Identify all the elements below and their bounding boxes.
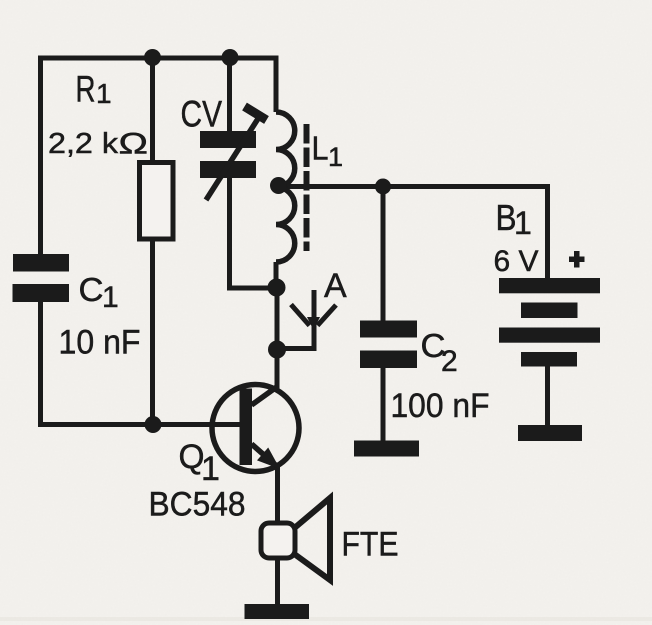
battery B1 plates <box>499 278 600 293</box>
FTE horn <box>295 498 330 580</box>
wire left column lower + bottom horizontal to base <box>41 301 241 425</box>
wire coil bottom stub <box>274 262 279 288</box>
svg-text:6 V: 6 V <box>494 245 539 278</box>
wire emitter lead <box>275 465 280 524</box>
inductor L1 coil <box>276 112 295 262</box>
wire C2 top lead <box>381 187 386 322</box>
wire antenna stem and link <box>277 290 314 349</box>
svg-text:1: 1 <box>96 78 112 109</box>
svg-text:1: 1 <box>201 450 220 488</box>
antenna A symbol <box>291 305 336 326</box>
node: coil tap <box>270 177 287 194</box>
node: antenna junction <box>268 341 286 359</box>
Q1 emitter arrowhead <box>257 448 280 470</box>
node: top rail / CV junction <box>222 49 239 66</box>
B1 plus sign <box>569 257 585 263</box>
wire FTE to ground <box>275 557 280 605</box>
svg-text:100 nF: 100 nF <box>391 387 490 425</box>
svg-text:C: C <box>79 271 104 308</box>
FTE earphone box <box>261 523 295 558</box>
wire coil top lead <box>274 56 279 113</box>
svg-text:FTE: FTE <box>342 526 399 564</box>
wire CV bottom lead to coil bottom <box>230 178 277 288</box>
node: C2 tap <box>375 179 391 195</box>
CV arrow <box>206 114 261 200</box>
svg-text:R: R <box>76 69 96 110</box>
capacitor C2 plates <box>360 321 417 338</box>
node: coil bottom / CV junction <box>268 279 286 297</box>
svg-text:BC548: BC548 <box>149 486 246 524</box>
ground (FTE) <box>245 604 310 619</box>
transistor Q1 <box>212 385 299 472</box>
svg-text:CV: CV <box>181 94 223 135</box>
svg-text:L: L <box>312 130 329 167</box>
wire R1 top lead <box>150 58 155 163</box>
wire left column upper <box>38 56 43 255</box>
resistor R1 body <box>140 163 174 240</box>
wire B1 bottom lead <box>545 365 550 427</box>
L1 ferrite core dashed line <box>304 124 310 251</box>
wire collector column <box>275 287 280 388</box>
ground (B1) <box>518 425 582 441</box>
CV arrow T-head <box>245 107 267 121</box>
capacitor C1 plates <box>13 254 69 272</box>
svg-text:Ω: Ω <box>119 128 149 161</box>
wire top rail <box>41 56 277 61</box>
wire C2 bottom lead <box>381 367 386 442</box>
svg-text:1: 1 <box>328 142 343 172</box>
svg-text:1: 1 <box>102 281 119 314</box>
variable capacitor CV plates <box>200 131 256 148</box>
svg-text:1: 1 <box>514 205 532 241</box>
svg-text:A: A <box>324 267 347 305</box>
wire tap rail to battery <box>278 187 548 280</box>
svg-text:2,2 k: 2,2 k <box>48 128 119 160</box>
svg-text:2: 2 <box>441 345 458 378</box>
Q1 base bar <box>240 389 253 466</box>
ground (C2) <box>354 441 419 457</box>
node: base junction <box>145 416 162 433</box>
Q1 emitter stroke <box>252 444 277 466</box>
wire CV top lead <box>227 58 232 131</box>
svg-text:10 nF: 10 nF <box>59 324 141 362</box>
wire R1 bottom lead <box>150 238 155 424</box>
node: top rail / R1 junction <box>144 49 161 66</box>
Q1 collector stroke <box>252 386 279 405</box>
